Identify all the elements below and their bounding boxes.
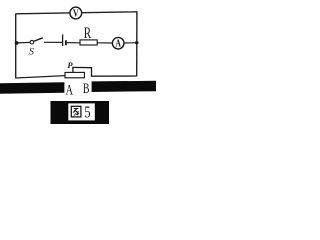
svg-text:B: B — [83, 81, 90, 97]
redacted text bar (left) — [0, 82, 64, 94]
svg-text:P: P — [67, 60, 73, 70]
wire: switch to battery — [44, 41, 62, 43]
rheostat slider post — [72, 67, 74, 73]
wire: resistor R to ammeter — [97, 42, 112, 44]
wire: battery to resistor R — [67, 42, 80, 44]
wire: left side of loop — [15, 13, 17, 78]
battery cell: short (negative) plate — [65, 40, 67, 45]
rheostat slider arm — [72, 66, 92, 68]
glyph 图 (Figure) drawn as strokes — [71, 106, 81, 117]
svg-text:5: 5 — [84, 102, 90, 121]
ammeter U-A — [112, 37, 124, 49]
wire: middle branch from left frame to switch — [16, 41, 31, 44]
svg-text:R: R — [84, 25, 92, 42]
figure caption white panel — [68, 103, 95, 120]
battery cell: long (positive) plate — [62, 34, 64, 46]
voltmeter U-V — [70, 7, 82, 20]
wire: slider arm drop to bottom wire — [91, 67, 93, 76]
svg-text:V: V — [73, 9, 79, 20]
redacted text bar (right) — [92, 81, 156, 92]
svg-text:S: S — [29, 46, 34, 57]
svg-text:A: A — [66, 82, 74, 98]
switch S blade (open) — [34, 38, 43, 42]
wire: top side of loop (left frame corner to right frame corner) — [16, 12, 137, 14]
wire: bottom right to frame — [91, 75, 137, 77]
rheostat body (slide resistor) — [65, 72, 84, 77]
switch S pivot — [30, 40, 34, 44]
junction node at right frame / middle branch — [135, 41, 138, 44]
wire: ammeter to right frame — [124, 42, 137, 44]
wire: bottom left from frame to rheostat — [16, 76, 66, 78]
wire: right side of loop — [136, 11, 138, 76]
svg-text:A: A — [115, 39, 121, 50]
junction node at left frame / middle branch — [15, 41, 19, 45]
resistor R body — [80, 40, 97, 45]
figure caption block background — [51, 101, 110, 124]
